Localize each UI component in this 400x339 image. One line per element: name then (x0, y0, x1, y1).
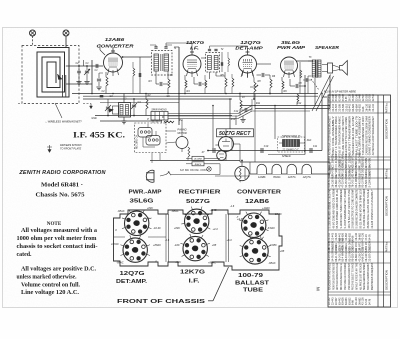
speaker cone (340, 61, 348, 76)
svg-text:100-79 BALLAST RESISTOR TUBE: 100-79 BALLAST RESISTOR TUBE (348, 189, 351, 228)
svg-text:SPKR FIELD: SPKR FIELD (282, 135, 301, 139)
svg-text:12Q7G: 12Q7G (240, 40, 261, 46)
field coil leads (279, 142, 283, 144)
wire rect drop x226 (225, 129, 227, 137)
tube V1 12AB6 converter (104, 53, 123, 72)
antenna ground arrow (49, 145, 51, 150)
svg-text:C12: C12 (234, 110, 239, 113)
cap C10 C11 ground stubs (258, 155, 260, 158)
svg-text:PU: PU (179, 119, 183, 122)
wire right bus 3 (208, 150, 322, 152)
parts table right column lines (377, 95, 379, 307)
ground under converter (96, 86, 101, 88)
wire T1 to V2 grid cap (166, 42, 192, 44)
coupling capacitor C7 (261, 73, 263, 77)
IF transformer T2 (206, 53, 220, 73)
svg-text:-88AC: -88AC (117, 209, 124, 213)
svg-text:36-662: 36-662 (353, 93, 355, 101)
svg-text:NOTE: NOTE (47, 221, 62, 227)
svg-text:45 OHM: 45 OHM (194, 158, 202, 161)
wire V3 plate to V4 grid (256, 63, 271, 65)
grid cap lead V2 (191, 48, 193, 55)
svg-text:ANTENNA LOOP WAVEMAGNET: ANTENNA LOOP WAVEMAGNET (372, 116, 375, 156)
capacitor C14 converter plate (139, 57, 141, 94)
antenna terminal A2 (63, 30, 69, 36)
speaker cable 3 wires (168, 113, 238, 115)
svg-text:S-13008 WAVEMAGNET ANT. ASSEM: S-13008 WAVEMAGNET ANT. ASSEM (344, 190, 347, 229)
svg-text:FRONT OF CHASSIS: FRONT OF CHASSIS (117, 299, 205, 305)
svg-text:M: M (162, 116, 164, 119)
on-off switch S1 (166, 172, 170, 175)
wire vertical x236 (235, 116, 237, 126)
wire right vertical x322 (321, 94, 323, 151)
svg-text:-104C: -104C (209, 208, 216, 212)
svg-text:22-510: 22-510 (330, 93, 332, 101)
svg-text:12K7G: 12K7G (180, 270, 205, 276)
wire bus mid2 (100, 102, 179, 104)
svg-text:S-13042 DIAL AND POINTER ASSEM: S-13042 DIAL AND POINTER ASSEM (363, 189, 366, 228)
filter capacitor C10 (260, 148, 262, 153)
svg-text:+88: +88 (280, 249, 285, 253)
phono jack stubs (152, 120, 154, 123)
svg-text:-88AC: -88AC (268, 261, 275, 265)
svg-text:42-126 POINTER CLIP ASSEMBLY: 42-126 POINTER CLIP ASSEMBLY (371, 189, 374, 228)
svg-text:S.P. SW. ON VOL. CONT.: S.P. SW. ON VOL. CONT. (180, 169, 208, 172)
T1 trimmers (154, 46, 157, 48)
resistor R4b (205, 80, 207, 88)
svg-text:22-443: 22-443 (360, 93, 362, 101)
wire rect box drop x232 (231, 137, 233, 151)
svg-text:100-79: 100-79 (238, 273, 263, 279)
wire bus AVC (100, 120, 162, 122)
capacitor C7b (244, 108, 246, 112)
svg-text:PART No.: PART No. (386, 168, 389, 179)
wire right bus 4 (268, 154, 305, 156)
grid cap lead V3 (247, 48, 249, 55)
svg-text:DESCRIPTION: DESCRIPTION (385, 119, 389, 139)
field coil L3 (283, 140, 300, 147)
chassis seam lines (165, 214, 167, 262)
wire filament bottom (215, 175, 250, 177)
ground det (242, 116, 244, 120)
svg-text:RECTIFIER: RECTIFIER (179, 190, 222, 196)
oscillator coil L2 (119, 103, 131, 118)
wire vertical x230 (229, 99, 231, 129)
tube socket 35L6G (125, 211, 149, 235)
svg-text:22-507 COND: 22-507 COND (368, 246, 371, 261)
svg-text:22-507: 22-507 (363, 93, 365, 101)
junction dots (91, 93, 93, 95)
svg-text:22-142: 22-142 (356, 93, 358, 101)
svg-text:R12: R12 (297, 102, 302, 105)
ground oscillator (121, 120, 126, 122)
cathode resistor R1 (106, 77, 108, 86)
svg-text:SPECIFY MODEL AND CHASSIS NUMB: SPECIFY MODEL AND CHASSIS NUMBER (344, 263, 347, 290)
phono jack panel (151, 112, 168, 121)
svg-text:I.F.: I.F. (190, 45, 199, 51)
plug-in meter dashed leader (311, 79, 319, 90)
svg-text:+6.3: +6.3 (226, 238, 232, 242)
wire filament drop x250 (249, 162, 251, 174)
svg-text:HOOD REPLACEMENT ASSEMBLY: HOOD REPLACEMENT ASSEMBLY (367, 263, 370, 290)
wire rect leads (225, 136, 227, 138)
resistor R15 (228, 58, 230, 66)
capacitor C5 (159, 82, 161, 86)
svg-text:WITHOUT NOTICE AT ANY TIME: WITHOUT NOTICE AT ANY TIME (355, 263, 358, 290)
svg-text:BLACK: BLACK (195, 163, 202, 166)
svg-text:S-12883 RECORD CHANGER COMPLET: S-12883 RECORD CHANGER COMPLETE (355, 189, 358, 228)
dial lamp (207, 167, 211, 171)
svg-text:DET:AMP.: DET:AMP. (116, 279, 148, 285)
svg-text:-8.8AC: -8.8AC (267, 226, 275, 230)
resistor R6 (270, 79, 272, 88)
loop lead wires (62, 75, 64, 97)
svg-text:FLD: FLD (307, 139, 312, 142)
svg-text:63-832: 63-832 (343, 93, 345, 101)
svg-text:95-331 PHONO MOTOR 78 RPM 117V: 95-331 PHONO MOTOR 78 RPM 117V (359, 189, 362, 228)
T2 leads (209, 72, 211, 79)
svg-text:+88AC: +88AC (153, 243, 161, 247)
svg-text:12Q7G: 12Q7G (303, 176, 311, 179)
tube socket 12AB6 (242, 213, 266, 237)
svg-text:+84C: +84C (175, 260, 181, 264)
svg-text:REPLACEMENT PARTS ARE AVAILABL: REPLACEMENT PARTS ARE AVAILABLE (329, 263, 332, 290)
svg-text:+88: +88 (212, 243, 217, 247)
svg-text:95-520 POWER CORD AND PLUG: 95-520 POWER CORD AND PLUG (336, 189, 339, 228)
svg-text:PART No.: PART No. (386, 102, 389, 113)
speaker voice coil (328, 63, 333, 73)
filament baseline (250, 173, 330, 175)
svg-text:←WIRELESS WAVEMAGNET?: ←WIRELESS WAVEMAGNET? (45, 120, 82, 124)
antenna shield dashed box (22, 46, 79, 104)
svg-text:All voltages measured with a: All voltages measured with a (21, 228, 97, 234)
wire avc resistor (164, 121, 174, 123)
parts table section lines (328, 101, 391, 103)
wire right bus 2 (255, 108, 330, 110)
filament bus upper (240, 161, 330, 163)
svg-text:chassis to socket contact indi: chassis to socket contact indi- (17, 244, 98, 250)
svg-text:+10AC: +10AC (262, 206, 270, 210)
capacitor C15 T2 secondary (221, 52, 223, 72)
resistor R3 (168, 79, 170, 88)
output transformer T3 (315, 60, 317, 79)
svg-text:S-12940 GANG TUNING CONDENSER: S-12940 GANG TUNING CONDENSER (340, 189, 343, 228)
svg-text:PRICES ARE SUBJECT TO CHANGE: PRICES ARE SUBJECT TO CHANGE (352, 263, 355, 290)
power cord (160, 175, 166, 177)
svg-text:22-142: 22-142 (372, 103, 375, 111)
tube V4 35L6G (281, 57, 298, 74)
svg-text:22-510 ELECTROLYTIC COND 20-20: 22-510 ELECTROLYTIC COND 20-20 MF (352, 189, 355, 228)
svg-text:63-626: 63-626 (336, 93, 338, 101)
bypass capacitor C8 (295, 84, 297, 88)
T2 trimmers (208, 48, 211, 50)
capacitor C6 (198, 82, 200, 86)
diode load resistor R5 (225, 78, 227, 87)
svg-text:22 OHMS D.C.: 22 OHMS D.C. (281, 148, 300, 152)
svg-text:FROM YOUR ZENITH DISTRIBUTOR: FROM YOUR ZENITH DISTRIBUTOR (332, 263, 335, 290)
wire V2 plate to T2 (201, 57, 206, 59)
svg-text:12AB6: 12AB6 (245, 199, 269, 205)
wire bus mid (95, 115, 232, 117)
wire transformer to speaker (333, 65, 340, 68)
svg-text:12Q7G: 12Q7G (120, 271, 145, 277)
wire T2 top to V3 grid (210, 45, 248, 47)
record changer dashed box (135, 123, 167, 153)
wire bus B+ second (83, 95, 318, 97)
phono switch wafer 1 (138, 128, 152, 138)
wire changer to plug (151, 153, 153, 164)
cathode resistor R9 (282, 81, 284, 89)
svg-text:SHIELD: SHIELD (282, 155, 291, 158)
wire filament bus top (150, 160, 240, 162)
svg-text:C10: C10 (264, 145, 269, 148)
tube socket 12K7G (183, 236, 207, 260)
wire right vertical x305 (304, 75, 306, 155)
filament 12K7G (287, 164, 296, 174)
resistor R13 phono (188, 147, 190, 157)
tube socket 12Q7G (123, 238, 147, 262)
svg-text:36-662 DIAL GLASS AND SCALE: 36-662 DIAL GLASS AND SCALE (367, 189, 370, 228)
filament 35L6G (272, 164, 281, 174)
filter capacitor C9 (212, 148, 214, 153)
svg-text:Model 6R481 ·: Model 6R481 · (41, 183, 83, 189)
svg-text:RECORD CH.: RECORD CH. (137, 134, 139, 149)
phono switch links (142, 137, 144, 147)
svg-text:CONVERTER: CONVERTER (237, 190, 282, 196)
wire bus screen (83, 98, 232, 100)
wire right vertical x275 (274, 106, 276, 140)
oscillator trimmer C3 (106, 106, 110, 108)
resistor R5b (232, 78, 234, 87)
phono switch wafer 2 (146, 136, 160, 146)
svg-text:-1.6: -1.6 (165, 238, 170, 242)
svg-text:-88AC: -88AC (116, 261, 123, 265)
svg-text:DET-AMP: DET-AMP (235, 46, 264, 52)
wire loop to converter grid (66, 65, 103, 67)
wire V1 plate to T1 (123, 56, 152, 58)
phono motor (176, 137, 188, 149)
svg-text:35L6G: 35L6G (130, 199, 154, 205)
svg-text:63-442: 63-442 (333, 93, 335, 101)
resistor R2 screen (146, 99, 148, 109)
svg-text:DESCRIPTION: DESCRIPTION (385, 270, 389, 290)
capacitor C16 (305, 78, 307, 82)
svg-text:SPKR PHONO: SPKR PHONO (151, 110, 167, 112)
T1 core lines (160, 54, 162, 71)
svg-text:ALL PRICES LIST NET EACH: ALL PRICES LIST NET EACH (359, 263, 362, 290)
svg-text:50Z7G RECT: 50Z7G RECT (219, 131, 251, 137)
svg-text:-0.88C: -0.88C (269, 243, 277, 247)
svg-text:BALLAST: BALLAST (235, 281, 269, 287)
wire right vertical x330 (329, 75, 331, 109)
svg-text:12K7G: 12K7G (288, 176, 296, 179)
svg-text:22-508: 22-508 (366, 93, 368, 101)
filament 12Q7G (302, 164, 311, 174)
svg-text:26-130: 26-130 (350, 93, 352, 101)
svg-text:R11: R11 (256, 102, 261, 105)
svg-text:+84C: +84C (147, 206, 153, 210)
svg-text:I.F. 455 KC.: I.F. 455 KC. (73, 131, 125, 140)
tube socket 100-79 ballast (242, 238, 268, 264)
shield box bottom extension (18, 103, 22, 105)
svg-text:SEE DEALER PRICE SHEET: SEE DEALER PRICE SHEET (363, 263, 366, 290)
svg-text:TUBE: TUBE (243, 288, 264, 294)
svg-text:WHEN ORDERING REPLACEMENT PART: WHEN ORDERING REPLACEMENT PARTS (348, 263, 351, 290)
svg-text:63-654: 63-654 (340, 93, 342, 101)
svg-text:TO FRONT PLATE: TO FRONT PLATE (60, 148, 81, 151)
svg-text:cated.: cated. (17, 252, 33, 258)
svg-text:SPEAKER: SPEAKER (315, 45, 340, 50)
parts table outer box (328, 95, 391, 307)
wire bus B+ main (72, 93, 318, 95)
cathode resistor R4 (185, 80, 187, 88)
svg-text:Volume control on full.: Volume control on full. (21, 283, 81, 289)
svg-text:CONVERTER: CONVERTER (97, 44, 135, 50)
wire x179 top hook (174, 46, 179, 48)
tube V2 12K7G (183, 55, 201, 73)
padder capacitor C4 (132, 104, 136, 106)
svg-text:All voltages are positive D.C.: All voltages are positive D.C. (21, 267, 97, 273)
trimmer C1 (85, 70, 89, 72)
antenna terminal A1 (30, 30, 36, 36)
resistor R7 (240, 100, 242, 109)
svg-text:22-510: 22-510 (373, 93, 375, 101)
svg-text:ZENITH RADIO CORPORATION: ZENITH RADIO CORPORATION (18, 170, 106, 176)
leader to wavemagnet label (55, 103, 62, 118)
wire right bus 1 (240, 105, 330, 107)
filament wire links (329, 162, 331, 174)
field coil shield dashes (278, 137, 305, 152)
svg-text:22-509: 22-509 (370, 93, 372, 101)
svg-text:6001 DICKENS AVENUE CHICAGO IL: 6001 DICKENS AVENUE CHICAGO ILL (340, 263, 343, 290)
tube V3 12Q7G (239, 55, 257, 73)
svg-text:-10C: -10C (174, 243, 180, 247)
svg-text:-10.4C: -10.4C (153, 226, 161, 230)
line resistor boxes (192, 156, 204, 160)
ballast tube 100-79 schematic (235, 166, 249, 180)
svg-text:50Z7G: 50Z7G (186, 199, 210, 205)
svg-text:12AB6: 12AB6 (105, 37, 125, 43)
wire phono to switch (166, 130, 176, 132)
volume control R8 (254, 82, 256, 92)
filter capacitor C11 (309, 148, 311, 153)
svg-text:ZENITH RADIO CORPORATION CHICA: ZENITH RADIO CORPORATION CHICAGO (336, 263, 339, 290)
resistor R14 (133, 68, 135, 76)
svg-text:GND: GND (91, 117, 97, 120)
wire right vertical x315 (314, 78, 316, 106)
plate lead V4 to output transformer (296, 60, 313, 62)
resistor R10 (297, 94, 299, 102)
osc left small box (113, 106, 119, 114)
wire right vertical x255 (254, 94, 256, 109)
svg-text:unless marked otherwise.: unless marked otherwise. (17, 275, 78, 281)
power plug (146, 170, 154, 182)
capacitor C2 (97, 78, 101, 80)
wire vertical x179 (178, 47, 180, 125)
svg-text:49-142 CONE AND VOICE COIL ASS: 49-142 CONE AND VOICE COIL ASSEM (332, 190, 335, 229)
chassis arrow at shield box (90, 104, 92, 107)
svg-text:PART PRICES ON REQUEST: PART PRICES ON REQUEST (371, 263, 374, 290)
IF transformer T1 (152, 51, 173, 76)
resistor R16 output grid (299, 62, 301, 94)
svg-text:-10.4C: -10.4C (274, 212, 282, 216)
svg-text:54-76: 54-76 (368, 298, 371, 305)
chassis outline (114, 210, 283, 270)
svg-text:35L6G: 35L6G (273, 176, 281, 179)
T1 secondary leads (167, 71, 169, 79)
loop crossing mark (58, 74, 63, 80)
svg-text:C11: C11 (313, 145, 318, 148)
svg-text:Line voltage 120 A.C.: Line voltage 120 A.C. (21, 290, 80, 296)
wire V1 plate up (100, 50, 105, 55)
wire V3 down (247, 73, 249, 78)
capacitor C2b (77, 70, 81, 72)
svg-text:+4.4: +4.4 (212, 227, 218, 231)
capacitor C13 (95, 64, 97, 68)
svg-text:6-66: 6-66 (346, 96, 348, 101)
svg-text:DESCRIPTION: DESCRIPTION (385, 196, 389, 216)
svg-text:Chassis No. 5675: Chassis No. 5675 (36, 193, 85, 199)
svg-text:+88AC: +88AC (208, 261, 216, 265)
capacitor across buses left (100, 94, 104, 96)
svg-text:S-12940 GANG: S-12940 GANG (368, 171, 371, 188)
filament 12AB6 (257, 164, 266, 174)
svg-text:PART No.: PART No. (386, 241, 389, 252)
svg-text:54-76: 54-76 (368, 234, 371, 241)
svg-text:PWR AMP: PWR AMP (277, 45, 306, 51)
svg-text:1000 ohm per volt meter from: 1000 ohm per volt meter from (17, 236, 97, 242)
svg-text:12AB6: 12AB6 (258, 176, 266, 179)
svg-text:PWR.-AMP: PWR.-AMP (129, 189, 163, 195)
svg-text:R10: R10 (231, 118, 236, 121)
wire B- drop x255 (254, 109, 256, 163)
svg-text:+84C: +84C (174, 226, 180, 230)
svg-text:-1.6: -1.6 (230, 204, 235, 208)
osc pointer arrow (109, 109, 114, 113)
svg-text:S-13266 SPEAKER ASSEMBLY 5 INC: S-13266 SPEAKER ASSEMBLY 5 INCH PM (329, 189, 332, 228)
rectifier tube V5 50Z7G (219, 137, 234, 152)
ballast leads (241, 161, 243, 167)
wavemagnet loop antenna L1 (37, 48, 69, 98)
svg-text:-88AC: -88AC (171, 209, 178, 213)
wire rect drop x213 (212, 106, 214, 151)
speaker cable diagonal to voice coil (312, 75, 331, 112)
grid cap lead V1 (112, 47, 114, 53)
tube socket 50Z7G (185, 209, 209, 233)
svg-text:I.F.: I.F. (189, 279, 201, 285)
svg-text:117AC: 117AC (111, 242, 119, 246)
